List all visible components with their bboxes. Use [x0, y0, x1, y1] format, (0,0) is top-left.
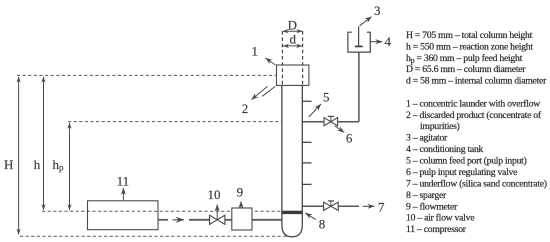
svg-text:1: 1 — [251, 44, 258, 59]
svg-text:8 – sparger: 8 – sparger — [406, 190, 447, 201]
svg-text:3: 3 — [374, 3, 381, 18]
svg-text:9: 9 — [237, 184, 244, 199]
svg-text:5: 5 — [323, 90, 330, 105]
svg-text:6 – pulp input regulating valv: 6 – pulp input regulating valve — [406, 167, 517, 178]
svg-text:6: 6 — [346, 131, 353, 146]
svg-text:8: 8 — [319, 216, 326, 231]
svg-text:2 – discarded product (concent: 2 – discarded product (concentrate of — [406, 110, 542, 121]
svg-text:4: 4 — [384, 34, 391, 49]
svg-text:d: d — [290, 32, 297, 47]
svg-text:10 – air flow valve: 10 – air flow valve — [406, 213, 474, 224]
svg-text:11 – compressor: 11 – compressor — [406, 224, 467, 235]
svg-text:d = 58 mm – internal column di: d = 58 mm – internal column diameter — [406, 75, 547, 86]
svg-text:7: 7 — [378, 199, 385, 214]
svg-text:D: D — [288, 18, 297, 33]
svg-text:9 – flowmeter: 9 – flowmeter — [406, 201, 458, 212]
svg-text:5 – column feed port (pulp inp: 5 – column feed port (pulp input) — [406, 156, 527, 167]
svg-text:11: 11 — [117, 174, 130, 189]
svg-text:2: 2 — [242, 101, 249, 116]
svg-text:hp = 360 mm – pulp feed height: hp = 360 mm – pulp feed height — [406, 53, 523, 65]
svg-text:h = 550 mm – reaction zone hei: h = 550 mm – reaction zone height — [406, 42, 533, 53]
svg-text:D = 65.6 mm – column diameter: D = 65.6 mm – column diameter — [406, 64, 526, 75]
svg-text:H: H — [4, 157, 13, 172]
svg-text:h: h — [34, 157, 41, 172]
svg-text:10: 10 — [208, 187, 221, 202]
svg-text:1 – concentric launder with ov: 1 – concentric launder with overflow — [406, 98, 540, 109]
svg-text:4 – conditioning tank: 4 – conditioning tank — [406, 144, 484, 155]
svg-text:7 – underflow (silica sand con: 7 – underflow (silica sand concentrate) — [406, 178, 547, 189]
svg-text:impurities): impurities) — [420, 121, 460, 132]
svg-text:H = 705 mm – total column heig: H = 705 mm – total column height — [406, 30, 533, 41]
svg-text:3 – agitator: 3 – agitator — [406, 133, 448, 144]
